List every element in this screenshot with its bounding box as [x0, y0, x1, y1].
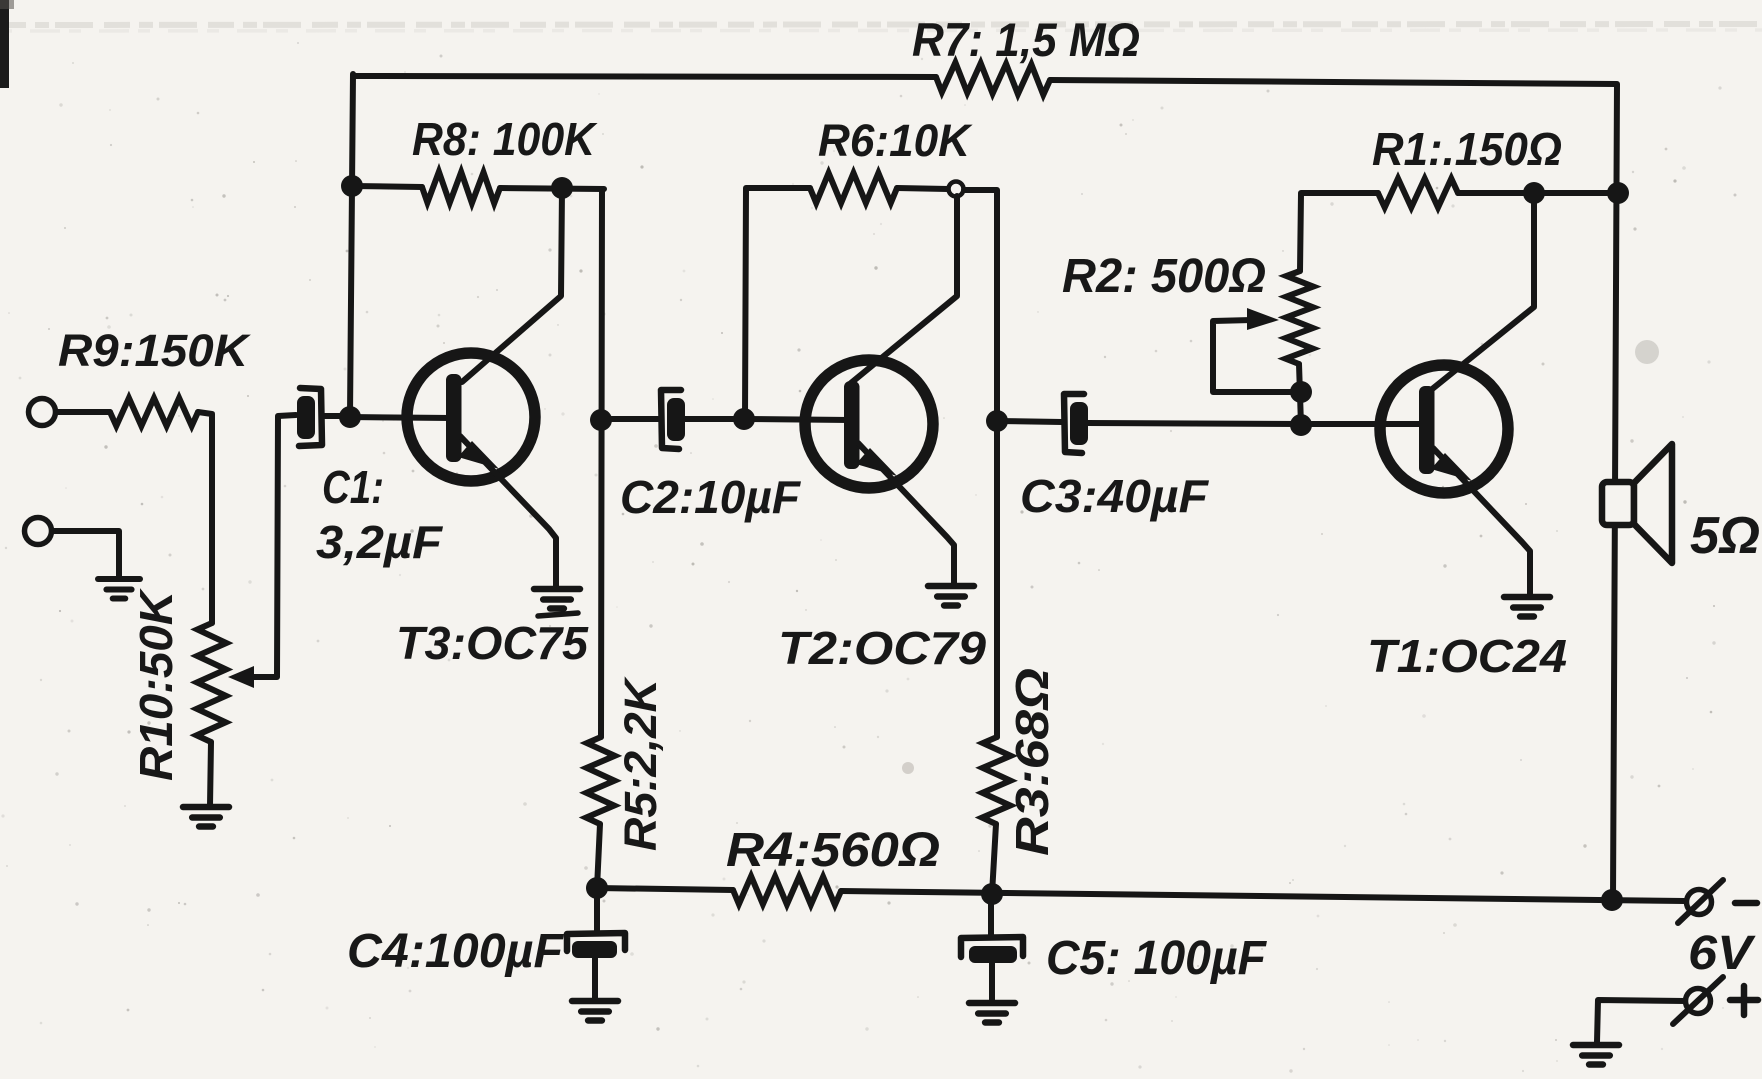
- wire: R2 vertical branch: [1299, 194, 1301, 425]
- svg-text:R4:560Ω: R4:560Ω: [726, 824, 940, 877]
- wire: input2 to ground: [52, 531, 119, 577]
- svg-text:3,2µF: 3,2µF: [316, 516, 444, 568]
- label R10 value: [130, 588, 182, 781]
- label C4 value: [347, 925, 565, 978]
- wire: R2 wiper loop: [1213, 320, 1291, 392]
- resistor R3: [982, 737, 1011, 824]
- node: rail2 left junction: [341, 175, 363, 197]
- label plus: [1730, 986, 1758, 1015]
- label T1 type: [1367, 630, 1567, 682]
- svg-text:R8: 100K: R8: 100K: [412, 113, 598, 165]
- svg-text:R3:68Ω: R3:68Ω: [1006, 668, 1058, 856]
- wire: R10 to ground: [210, 742, 211, 806]
- capacitor C4: [567, 933, 625, 958]
- wire: C3 to T1 base: [1088, 423, 1425, 424]
- wire: junction to C3: [997, 421, 1062, 422]
- label R8 value: [412, 113, 598, 165]
- wire: ground bus: [597, 888, 1684, 901]
- T3 emitter lead: [460, 436, 556, 588]
- wire: C2 to T2 base: [685, 419, 850, 420]
- node: R2 wiper junction: [1290, 381, 1312, 403]
- wire: right supply rail vertical: [1613, 84, 1617, 899]
- input terminal top: [29, 399, 56, 426]
- resistor R1: [1378, 179, 1458, 208]
- node: rail-right junction: [1607, 182, 1629, 204]
- node: bottom right junction: [1601, 889, 1623, 911]
- node: R3/C5 junction: [981, 883, 1003, 905]
- node: T2 base junction: [733, 408, 755, 430]
- label C1 value: [316, 516, 444, 568]
- speaker horn: [1634, 444, 1672, 563]
- svg-text:T3:OC75: T3:OC75: [396, 617, 589, 669]
- label T2 type: [778, 622, 986, 674]
- label R9 value: [58, 325, 252, 376]
- ground T3 emitter: [534, 589, 580, 609]
- resistor R7: [936, 63, 1050, 95]
- T2 emitter arrow: [856, 448, 897, 476]
- ground T2 emitter: [928, 586, 974, 606]
- node: R5/C4 junction: [586, 877, 608, 899]
- wire: junction to C4: [594, 888, 600, 931]
- svg-text:R5:2,2K: R5:2,2K: [615, 675, 666, 851]
- label R1 value: [1372, 123, 1562, 175]
- ground C5: [969, 1003, 1015, 1023]
- wire: C1 to T3 base: [322, 416, 452, 418]
- label R6 value: [818, 115, 973, 166]
- svg-text:R6:10K: R6:10K: [818, 115, 973, 166]
- node: C3 left junction: [986, 410, 1008, 432]
- node: T2 collector terminal (open): [949, 182, 964, 197]
- label speaker impedance: [1690, 507, 1760, 565]
- svg-text:T2:OC79: T2:OC79: [778, 622, 986, 674]
- wire: junction to C5: [988, 894, 994, 935]
- wire: input to R9: [56, 409, 110, 415]
- T2 emitter lead: [858, 443, 954, 585]
- label minus: [1735, 900, 1757, 907]
- label R2 value: [1062, 250, 1266, 303]
- wire: C5 to ground: [989, 963, 995, 1002]
- node: C2 left junction: [590, 409, 612, 431]
- T3 emitter arrow: [458, 441, 499, 469]
- svg-text:T1:OC24: T1:OC24: [1367, 630, 1567, 682]
- battery negative terminal: [1678, 880, 1723, 923]
- svg-text:R10:50K: R10:50K: [130, 588, 182, 781]
- svg-text:R9:150K: R9:150K: [58, 325, 252, 376]
- node: R8-collector junction: [551, 177, 573, 199]
- svg-text:R7: 1,5 MΩ: R7: 1,5 MΩ: [912, 13, 1140, 66]
- label C1 name: [322, 461, 384, 513]
- svg-text:5Ω: 5Ω: [1690, 507, 1760, 565]
- capacitor C5: [961, 937, 1023, 963]
- capacitor C3: [1064, 394, 1088, 453]
- wire: T2 base to R6: [745, 188, 810, 418]
- wire: R1 rail: [1301, 190, 1618, 196]
- ground T1 emitter: [1504, 597, 1550, 617]
- wire: positive terminal to ground: [1597, 1000, 1685, 1042]
- svg-text:C2:10µF: C2:10µF: [620, 471, 802, 523]
- svg-text:R2: 500Ω: R2: 500Ω: [1062, 250, 1266, 303]
- label C3 value: [1020, 470, 1210, 522]
- label R3 value: [1006, 668, 1058, 856]
- label C5 value: [1046, 932, 1268, 985]
- wire: T1 collector lead: [1426, 193, 1534, 394]
- ground battery positive: [1573, 1045, 1619, 1065]
- resistor R6: [810, 173, 897, 203]
- ground C4: [572, 1001, 618, 1021]
- wire: junction to C2: [601, 416, 659, 422]
- node: T1 collector junction: [1523, 182, 1545, 204]
- wire: R9 to R10 top: [198, 412, 212, 623]
- wire: V+ top rail left vertical: [350, 74, 353, 415]
- wire: C4 to ground: [592, 958, 598, 1000]
- wire: R8 rail: [353, 186, 604, 189]
- svg-text:C3:40µF: C3:40µF: [1020, 470, 1210, 522]
- wire: collector node to R3 branch: [964, 190, 997, 894]
- resistor R4: [733, 876, 841, 905]
- potentiometer R10: [197, 623, 227, 742]
- transistor T2: [805, 360, 933, 488]
- wire: T3 collector lead: [462, 189, 562, 382]
- wire: R6 to collector node: [897, 188, 948, 189]
- label R5 value: [615, 675, 666, 851]
- resistor R8: [422, 172, 500, 204]
- wire: T3 collector branch to C2/R5: [597, 189, 602, 888]
- wiper arrow R10: [228, 666, 254, 688]
- label T3 type: [396, 613, 589, 669]
- battery positive terminal: [1673, 977, 1723, 1024]
- T1 emitter lead: [1433, 448, 1530, 596]
- capacitor C2: [661, 390, 685, 449]
- svg-text:C1:: C1:: [322, 461, 384, 513]
- wire: top supply rail horizontal: [353, 76, 1616, 84]
- label battery voltage: [1688, 927, 1756, 980]
- ground input 2: [98, 579, 140, 599]
- wire: T2 collector lead: [851, 196, 957, 383]
- svg-text:C4:100µF: C4:100µF: [347, 925, 565, 978]
- potentiometer R2: [1286, 271, 1314, 364]
- wire: R10 wiper to C1: [250, 415, 296, 677]
- label R4 value: [726, 824, 940, 877]
- capacitor C1: [297, 388, 322, 446]
- resistor R9: [110, 398, 198, 426]
- label R7 value: [912, 13, 1140, 66]
- resistor R5: [586, 737, 615, 824]
- node: R2 bottom junction on base wire: [1290, 414, 1312, 436]
- svg-text:6V: 6V: [1688, 927, 1756, 980]
- ground below R10: [183, 807, 229, 827]
- input terminal bottom: [25, 518, 52, 545]
- transistor T1: [1380, 365, 1508, 493]
- node: T3 base junction: [339, 406, 361, 428]
- wiper arrow R2: [1247, 308, 1279, 330]
- T1 emitter arrow: [1431, 453, 1472, 481]
- svg-text:C5: 100µF: C5: 100µF: [1046, 932, 1268, 985]
- transistor T3: [407, 353, 535, 481]
- label C2 value: [620, 471, 802, 523]
- svg-text:R1:.150Ω: R1:.150Ω: [1372, 123, 1562, 175]
- speaker box: [1602, 482, 1634, 525]
